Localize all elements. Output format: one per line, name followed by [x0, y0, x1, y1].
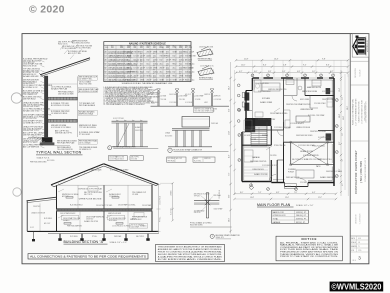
svg-text:1/4: 1/4 [358, 242, 360, 244]
svg-text:CONTRACTOR: CHRIS CONEY: CONTRACTOR: CHRIS CONEY [354, 150, 358, 194]
svg-text:04-18-20: 04-18-20 [360, 70, 362, 77]
svg-text:2316 SALMON RIVER DR: 2316 SALMON RIVER DR [365, 101, 368, 123]
svg-text:©WVMLS2020: ©WVMLS2020 [331, 282, 382, 291]
svg-text:OF 4: OF 4 [352, 260, 356, 262]
svg-text:4-20: 4-20 [358, 238, 361, 240]
svg-text:REVISIONS: REVISIONS [355, 67, 357, 78]
svg-text:LOT 27 RIVERBEND ESTATES: LOT 27 RIVERBEND ESTATES [355, 98, 358, 125]
svg-text:JOB: JOB [351, 250, 354, 252]
svg-text:CUSTOM RESIDENCE FOR: CUSTOM RESIDENCE FOR [362, 100, 364, 124]
svg-text:2215: 2215 [358, 250, 362, 252]
svg-text:© 2020: © 2020 [29, 4, 65, 16]
svg-text:SALEM OREGON 97306: SALEM OREGON 97306 [358, 101, 361, 122]
svg-text:COVINGTON CREST LOT 8: COVINGTON CREST LOT 8 [365, 158, 367, 182]
svg-text:( 503 ) 680-7845: ( 503 ) 680-7845 [359, 161, 363, 184]
svg-text:T. JOHNSON: T. JOHNSON [360, 213, 362, 224]
svg-text:PLAN 22156 THE BRADFORD: PLAN 22156 THE BRADFORD [352, 98, 355, 125]
svg-text:DESIGN BY: DESIGN BY [356, 213, 358, 224]
svg-text:TJ: TJ [358, 246, 360, 248]
